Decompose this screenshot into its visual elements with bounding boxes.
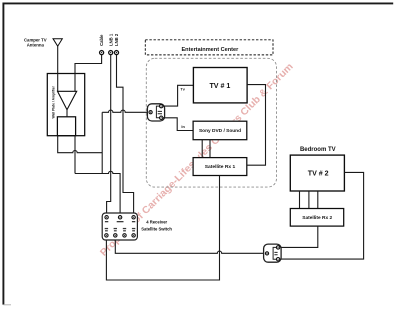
wire Rx2 down to diplexer top port xyxy=(280,226,318,247)
svg-text:LNB 2: LNB 2 xyxy=(114,33,119,46)
connector LNB 2 xyxy=(114,51,118,55)
wire amp output down-right, hop over cable line xyxy=(58,136,102,153)
entertainment center enclosure xyxy=(146,58,276,187)
wire cable jack to wall plate xyxy=(75,55,102,74)
label Camper TV Antenna xyxy=(24,38,47,48)
svg-text:Sony DVD / Sound: Sony DVD / Sound xyxy=(199,128,241,134)
wire Rx1 down to switch port R1 xyxy=(106,176,219,281)
wire antenna to wall plate xyxy=(57,46,59,73)
amplifier triangle xyxy=(58,91,77,109)
svg-text:Satellite Rx 2: Satellite Rx 2 xyxy=(302,215,332,221)
antenna symbol xyxy=(53,39,62,47)
wire into amplifier (antenna leg) xyxy=(57,74,59,92)
Satellite Rx 2 box xyxy=(290,209,343,227)
switch top port LNB A xyxy=(105,216,108,219)
svg-text:Antenna: Antenna xyxy=(27,43,45,48)
switch bottom port R1 xyxy=(105,234,108,237)
wire cable output down xyxy=(74,136,76,174)
svg-text:4 Receiver: 4 Receiver xyxy=(146,220,167,225)
switch top port LNB B xyxy=(132,216,135,219)
wire TV1 right to Rx1 right xyxy=(247,85,266,166)
diplexer port bottom right xyxy=(276,258,279,261)
diplexer U3 body xyxy=(264,244,282,262)
svg-text:Wall Plate / Amplifier: Wall Plate / Amplifier xyxy=(51,85,55,118)
wire TV2 right to diplexer bottom port xyxy=(280,172,364,259)
svg-text:Satellite Rx 1: Satellite Rx 1 xyxy=(205,164,236,170)
svg-text:LNB 1: LNB 1 xyxy=(108,33,113,46)
wire wall plate to splitter, hops over LNB1 and LNB2 lines xyxy=(102,110,149,112)
svg-text:Satellite Switch: Satellite Switch xyxy=(141,226,172,231)
wire splitter to DVD xyxy=(163,118,193,131)
wire combined to switch port 2, hop over LNB1 line xyxy=(75,171,120,215)
splitter bars xyxy=(158,111,162,113)
wall plate / amplifier box xyxy=(47,74,84,136)
wire splitter to TV 1 xyxy=(163,85,194,106)
wire LNB2 down to switch port 3 xyxy=(117,55,134,216)
splitter inner bracket xyxy=(156,106,161,118)
Sony DVD / Sound box xyxy=(193,121,247,140)
switch bottom port R3 xyxy=(123,234,126,237)
connector Cable xyxy=(100,51,104,55)
switch top port labels xyxy=(105,221,108,222)
svg-text:Entertainment Center: Entertainment Center xyxy=(181,47,239,53)
wire LNB1 down to switch port 1 xyxy=(107,55,111,216)
svg-text:TV # 1: TV # 1 xyxy=(209,82,230,90)
splitter port left xyxy=(149,111,152,114)
diplexer bars xyxy=(274,252,277,254)
svg-text:Bedroom TV: Bedroom TV xyxy=(300,147,336,153)
splitter port top right xyxy=(160,104,163,107)
switch U4 body xyxy=(102,213,137,240)
connector LNB 1 xyxy=(109,51,113,55)
wire riser at x=102 xyxy=(101,112,103,173)
switch label xyxy=(141,220,172,232)
wire switch port R2 to diplexer left, hop over Rx1 drop xyxy=(115,237,265,253)
TV # 2 box xyxy=(290,155,344,191)
diplexer port left xyxy=(265,252,268,255)
wire into amplifier (cable leg) xyxy=(74,74,76,92)
wires TV2 to Rx2 xyxy=(300,191,318,209)
svg-text:Cable: Cable xyxy=(99,34,104,46)
switch bottom port R2 xyxy=(114,234,117,237)
wires DVD to Rx1 xyxy=(202,140,210,158)
splitter U2 body xyxy=(147,104,164,121)
diplexer inner bracket xyxy=(273,247,278,259)
wire amp apex to lower block xyxy=(66,110,68,117)
diplexer port top right xyxy=(276,246,279,249)
TV # 1 box xyxy=(193,68,247,103)
Satellite Rx 1 box xyxy=(193,158,247,176)
switch bottom port R4 xyxy=(132,234,135,237)
svg-text:TV # 2: TV # 2 xyxy=(308,170,329,178)
splitter port bottom right xyxy=(160,116,163,119)
switch output labels Rx1-Rx4 xyxy=(105,228,136,232)
amplifier lower block xyxy=(57,117,75,136)
switch top port Cable xyxy=(118,216,121,219)
entertainment center title box xyxy=(145,40,273,55)
